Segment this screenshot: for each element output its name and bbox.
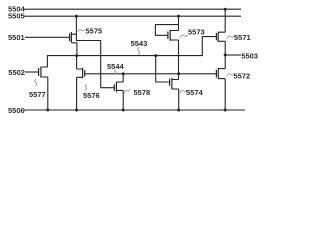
svg-text:5544: 5544 — [107, 62, 125, 71]
svg-text:5575: 5575 — [86, 27, 103, 36]
svg-text:5572: 5572 — [234, 71, 251, 80]
svg-text:5506: 5506 — [8, 106, 25, 115]
svg-text:5574: 5574 — [186, 88, 204, 97]
svg-text:5578: 5578 — [134, 88, 151, 97]
svg-text:5505: 5505 — [8, 11, 25, 20]
svg-text:5543: 5543 — [131, 39, 148, 48]
svg-text:5576: 5576 — [83, 91, 100, 100]
svg-text:5573: 5573 — [188, 28, 205, 37]
svg-text:5503: 5503 — [241, 51, 258, 60]
svg-text:5571: 5571 — [234, 33, 251, 42]
svg-text:5501: 5501 — [8, 33, 25, 42]
svg-text:5502: 5502 — [8, 68, 25, 77]
svg-text:5577: 5577 — [29, 90, 46, 99]
